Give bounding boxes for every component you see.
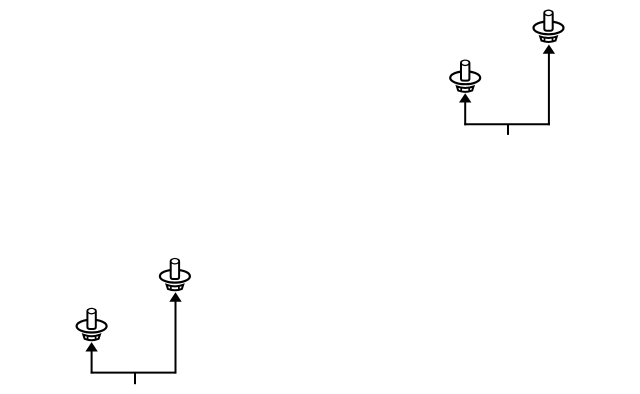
- arrow leader to bolt B1: [543, 45, 555, 126]
- label tick group 2: [134, 373, 136, 385]
- bracket line group 2: [91, 372, 177, 374]
- bracket line group 1: [464, 123, 550, 125]
- fastener bolt B2: [450, 60, 480, 92]
- arrow leader to bolt B2: [459, 93, 471, 125]
- fastener bolt B1 top-right: [534, 10, 564, 42]
- arrow leader to bolt B4: [85, 342, 97, 374]
- fastener bolt B3 bottom-left: [160, 259, 190, 291]
- arrow leader to bolt B3: [169, 292, 181, 373]
- fastener bolt B4: [77, 308, 107, 340]
- label tick group 1: [507, 124, 509, 135]
